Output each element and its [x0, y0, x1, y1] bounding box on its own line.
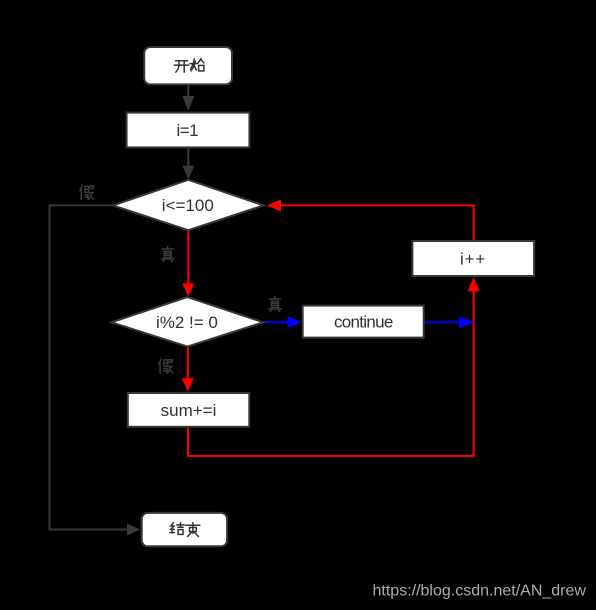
svg-text:continue: continue	[334, 313, 393, 332]
svg-text:sum+=i: sum+=i	[161, 401, 217, 420]
svg-text:i<=100: i<=100	[162, 196, 214, 215]
svg-text:i=1: i=1	[176, 121, 198, 140]
svg-text:i%2 != 0: i%2 != 0	[156, 313, 218, 332]
svg-text:https://blog.csdn.net/AN_drew: https://blog.csdn.net/AN_drew	[373, 583, 587, 600]
svg-text:i++: i++	[460, 249, 486, 268]
